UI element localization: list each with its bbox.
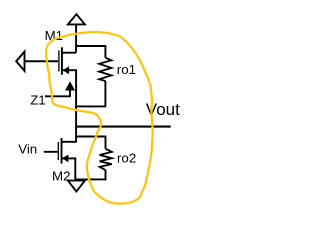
wire: drain node to ro1 top bbox=[75, 45, 105, 47]
wire: trunk to ro2 top bbox=[75, 136, 105, 138]
svg-text:ro2: ro2 bbox=[117, 151, 136, 166]
M2 source arrow bbox=[62, 155, 68, 163]
M2 gate bar bbox=[57, 142, 59, 160]
svg-text:ro1: ro1 bbox=[117, 62, 136, 77]
M1 source stub bbox=[62, 69, 77, 71]
wire: M2 source down to ground bbox=[74, 158, 76, 181]
wire: ro1 bottom to trunk bbox=[75, 105, 106, 107]
wire: ro2 bottom to ground node bbox=[74, 178, 106, 180]
M2 source stub bbox=[62, 157, 76, 159]
ground symbol bbox=[68, 181, 85, 192]
power symbol (VDD up arrow) bbox=[68, 14, 85, 24]
ro2 top lead bbox=[105, 136, 107, 149]
resistor ro2 bbox=[74, 136, 111, 180]
ro1 bottom lead bbox=[104, 81, 106, 106]
wire: Vout node bbox=[75, 126, 171, 128]
feedback loop (orange hand-drawn curve) bbox=[46, 32, 152, 204]
ro1 top lead bbox=[104, 45, 106, 58]
M1 source arrow bbox=[63, 66, 70, 74]
ro2 bottom lead bbox=[105, 170, 107, 179]
wire: port to M1 gate bbox=[25, 60, 59, 62]
svg-text:Z1: Z1 bbox=[30, 93, 46, 108]
svg-text:Vin: Vin bbox=[18, 141, 37, 156]
M1 channel bar bbox=[61, 47, 63, 75]
svg-text:M1: M1 bbox=[45, 28, 63, 43]
M1 drain stub bbox=[62, 52, 76, 54]
transistor M2 bbox=[44, 138, 76, 164]
Z1 pointer arrow bbox=[65, 81, 75, 90]
resistor ro1 bbox=[75, 45, 111, 106]
M2 gate lead bbox=[44, 151, 58, 153]
input port triangle bbox=[16, 52, 24, 71]
M2 channel bar bbox=[61, 138, 63, 164]
wire: M1 source trunk down through Vout node to M2 drain bbox=[75, 70, 77, 142]
ro2 zigzag bbox=[100, 149, 112, 170]
transistor M1 bbox=[59, 47, 77, 75]
wire: M2 drain stub bbox=[62, 141, 77, 143]
Z1 pointer leader wire bbox=[45, 88, 70, 96]
ro1 zigzag bbox=[99, 58, 111, 81]
M1 gate bar bbox=[58, 50, 60, 71]
wire: supply down to M1 drain bbox=[75, 24, 77, 52]
